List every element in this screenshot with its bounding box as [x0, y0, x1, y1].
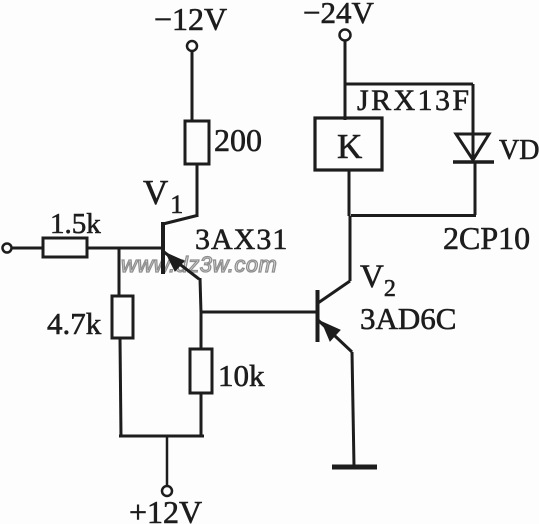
resistor 10k — [190, 349, 265, 393]
wire — [201, 311, 317, 314]
wire — [118, 248, 121, 296]
svg-text:4.7k: 4.7k — [47, 306, 102, 341]
terminal -24V — [303, 0, 374, 41]
wire — [11, 247, 43, 250]
wire — [352, 352, 354, 466]
wire — [474, 163, 477, 215]
wire — [191, 51, 194, 121]
relay K — [315, 118, 382, 170]
svg-text:3AX31: 3AX31 — [195, 223, 288, 256]
resistor 200 — [185, 121, 262, 164]
wire — [196, 164, 199, 217]
terminal +12V — [129, 486, 202, 524]
wire — [351, 214, 476, 217]
wire — [349, 216, 352, 281]
svg-text:1.5k: 1.5k — [50, 208, 101, 240]
svg-text:10k: 10k — [218, 358, 265, 393]
wire — [200, 393, 203, 436]
ground — [332, 465, 377, 470]
svg-text:−24V: −24V — [303, 0, 374, 30]
wire — [348, 170, 351, 216]
svg-text:+12V: +12V — [129, 494, 202, 524]
terminal -12V — [154, 1, 227, 51]
transistor V1 — [163, 216, 199, 280]
wire — [472, 84, 475, 160]
resistor 1.5k — [43, 208, 101, 257]
wire — [166, 436, 169, 487]
diode VD — [453, 134, 494, 162]
wire — [200, 312, 203, 349]
wire — [120, 338, 121, 437]
resistor 4.7k — [47, 296, 133, 341]
wire — [119, 435, 204, 438]
terminal input — [3, 244, 12, 253]
wire — [345, 83, 473, 86]
svg-text:VD: VD — [499, 135, 539, 166]
wire — [344, 40, 347, 120]
svg-text:2CP10: 2CP10 — [443, 220, 530, 256]
svg-text:3AD6C: 3AD6C — [360, 301, 456, 336]
svg-text:−12V: −12V — [154, 1, 227, 37]
wire — [87, 247, 162, 250]
svg-text:K: K — [337, 127, 362, 166]
svg-text:JRX13F: JRX13F — [357, 84, 471, 117]
transistor V2 — [318, 281, 353, 352]
svg-text:200: 200 — [214, 122, 262, 158]
wire — [200, 278, 201, 313]
